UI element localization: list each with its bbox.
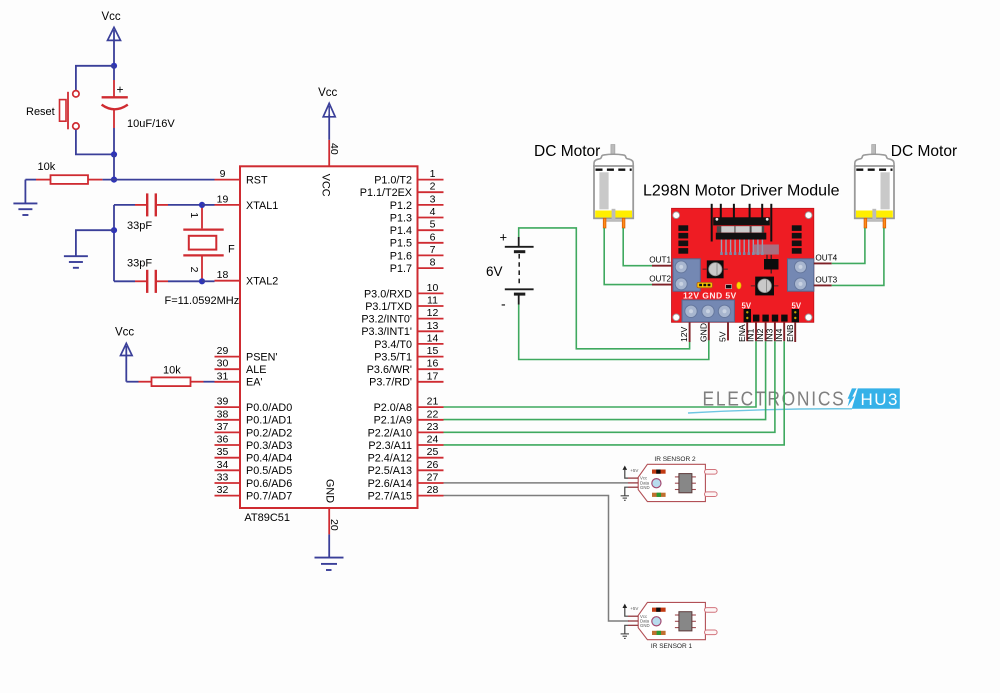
svg-text:PSEN': PSEN': [246, 352, 277, 364]
module U2 L298N board: [672, 208, 814, 322]
svg-text:P0.5/AD5: P0.5/AD5: [246, 465, 292, 477]
svg-text:2: 2: [430, 181, 436, 193]
svg-text:OUT1: OUT1: [649, 256, 671, 265]
svg-text:12V GND 5V: 12V GND 5V: [683, 291, 737, 301]
svg-text:29: 29: [217, 345, 229, 357]
U1 pin 19 XTAL1: [215, 193, 279, 211]
U1 pin 26 P2.5/A13: [368, 459, 444, 477]
svg-text:32: 32: [217, 484, 229, 496]
module pin stub IN1: [746, 322, 756, 342]
svg-text:XTAL1: XTAL1: [246, 200, 278, 212]
svg-text:25: 25: [427, 446, 439, 458]
svg-text:P2.5/A13: P2.5/A13: [368, 465, 412, 477]
svg-text:1: 1: [188, 212, 200, 218]
svg-text:P1.7: P1.7: [390, 263, 412, 275]
svg-text:P3.5/T1: P3.5/T1: [374, 352, 412, 364]
svg-text:34: 34: [217, 459, 229, 471]
wire XTAL1 to pin 19: [202, 204, 215, 206]
svg-text:P0.0/AD0: P0.0/AD0: [246, 402, 292, 414]
svg-text:IN1: IN1: [746, 328, 756, 342]
wire IN3 to pin 23: [444, 341, 775, 432]
U1 pin 1 P1.0/T2: [374, 168, 443, 186]
U1 pin 6 P1.5: [390, 231, 444, 249]
U1 pin 3 P1.2: [390, 193, 444, 211]
svg-text:F: F: [228, 244, 235, 256]
svg-text:RST: RST: [246, 175, 268, 187]
module 5V jumper ENA: [742, 301, 752, 322]
svg-text:10: 10: [427, 282, 439, 294]
module mounting holes: [673, 212, 812, 321]
module pin stub IN2: [755, 322, 765, 342]
wire OUT1 to motor M1 right terminal: [623, 228, 652, 266]
svg-text:21: 21: [427, 396, 439, 408]
svg-text:5V: 5V: [792, 301, 802, 310]
IR sensor 1 module: [621, 602, 718, 650]
U1 pin 2 P1.1/T2EX: [360, 181, 444, 199]
module capacitor big C-B: [751, 277, 779, 296]
svg-text:P2.2/A10: P2.2/A10: [368, 427, 412, 439]
module yellow LED: [737, 282, 741, 289]
U1 pin 35 P0.4/AD4: [215, 446, 293, 464]
svg-text:10k: 10k: [163, 364, 181, 376]
svg-text:38: 38: [217, 408, 229, 420]
push-button switch Reset: [26, 91, 79, 130]
wire OUT4 to motor M2 left terminal: [832, 228, 865, 263]
svg-text:Vcc: Vcc: [318, 87, 337, 99]
svg-text:7: 7: [430, 244, 436, 256]
module left screw terminal OUT1/OUT2: [673, 259, 700, 291]
svg-text:12: 12: [427, 307, 439, 319]
U1 pin 23 P2.2/A10: [368, 421, 444, 439]
svg-text:IR SENSOR 1: IR SENSOR 1: [651, 643, 693, 650]
U1 pin 18 XTAL2: [215, 269, 279, 287]
svg-text:P2.3/A11: P2.3/A11: [368, 440, 412, 452]
svg-text:-: -: [501, 296, 506, 312]
U1 pin 34 P0.5/AD5: [215, 459, 293, 477]
wire node A to switch top: [76, 66, 114, 91]
module pin OUT1: [649, 256, 671, 266]
crystal F: [183, 205, 235, 281]
svg-text:P0.4/AD4: P0.4/AD4: [246, 453, 292, 465]
module pin OUT3: [814, 275, 838, 285]
U1 pin 16 P3.6/WR': [367, 358, 444, 376]
svg-text:40: 40: [328, 143, 340, 155]
IR sensor 2 module: [621, 456, 718, 502]
svg-text:P2.1/A9: P2.1/A9: [374, 415, 412, 427]
svg-text:15: 15: [427, 345, 439, 357]
svg-text:35: 35: [217, 446, 229, 458]
svg-text:IN4: IN4: [774, 328, 784, 342]
resistor R1 10k: [25, 161, 102, 184]
U1 pin 40 VCC with Vcc arrow: [318, 87, 340, 166]
U1 pin 33 P0.6/AD6: [215, 472, 293, 490]
U1 pin 38 P0.1/AD1: [215, 408, 293, 426]
svg-text:GND: GND: [698, 323, 708, 342]
svg-text:P2.0/A8: P2.0/A8: [374, 402, 412, 414]
svg-text:12V: 12V: [679, 326, 689, 342]
power Vcc symbol top-left: [102, 11, 121, 66]
ground G1: [13, 180, 37, 215]
U1 pin 7 P1.6: [390, 244, 444, 262]
module left resistor pads: [678, 225, 688, 253]
svg-text:36: 36: [217, 434, 229, 446]
svg-text:P1.1/T2EX: P1.1/T2EX: [360, 187, 412, 199]
module bottom screw terminal 12V/GND/5V: [682, 300, 734, 322]
U1 pin 29 PSEN': [215, 345, 278, 363]
node F2 (XTAL2): [199, 278, 205, 284]
U1 pin 27 P2.6/A14: [368, 472, 444, 490]
svg-text:DC Motor: DC Motor: [534, 143, 600, 160]
U1 pin 5 P1.4: [390, 219, 444, 237]
U1 pin 39 P0.0/AD0: [215, 396, 293, 414]
module pin stub ENA: [737, 322, 747, 342]
wire caps left rail: [113, 205, 115, 281]
wire switch bottom to node B: [76, 130, 114, 155]
svg-text:P2.4/A12: P2.4/A12: [368, 453, 412, 465]
node A (Vcc to switch/cap): [111, 63, 117, 69]
svg-text:11: 11: [427, 295, 438, 307]
module small smd: [726, 285, 732, 289]
svg-text:P3.2/INT0': P3.2/INT0': [361, 314, 412, 326]
svg-text:16: 16: [427, 358, 439, 370]
U1 pin 24 P2.3/A11: [368, 434, 443, 452]
svg-text:10uF/16V: 10uF/16V: [127, 118, 175, 130]
module pin stub IN3: [765, 322, 775, 342]
svg-text:Vcc: Vcc: [102, 11, 121, 23]
watermark ELECTRONICS HUB logo: [688, 388, 900, 413]
svg-text:+: +: [117, 83, 124, 97]
svg-text:DC Motor: DC Motor: [891, 143, 957, 160]
wire node B down to RST net: [113, 154, 115, 179]
svg-text:37: 37: [217, 421, 229, 433]
svg-text:6: 6: [430, 231, 436, 243]
svg-text:P1.3: P1.3: [390, 212, 412, 224]
svg-text:P3.4/T0: P3.4/T0: [374, 339, 412, 351]
svg-text:Vcc: Vcc: [115, 327, 134, 339]
U1 pin 20 GND with ground: [315, 508, 344, 570]
op-amp U1 AT89C51 microcontroller body: [240, 166, 418, 508]
svg-text:GND: GND: [324, 479, 336, 503]
U1 pin 13 P3.3/INT1': [361, 320, 443, 338]
svg-text:+: +: [500, 230, 508, 245]
power Vcc symbol (EA pull-up): [115, 327, 134, 382]
module pin OUT4: [814, 253, 838, 263]
svg-text:P1.2: P1.2: [390, 200, 412, 212]
svg-text:5V: 5V: [742, 301, 752, 310]
motor M2 DC Motor (right): [855, 145, 894, 229]
svg-text:1: 1: [430, 168, 436, 180]
svg-text:P3.3/INT1': P3.3/INT1': [361, 326, 412, 338]
capacitor C2 33pF: [114, 193, 202, 232]
svg-text:3: 3: [430, 193, 436, 205]
svg-text:+5V: +5V: [630, 606, 638, 611]
svg-text:23: 23: [427, 421, 439, 433]
svg-text:F=11.0592MHz: F=11.0592MHz: [165, 295, 240, 307]
svg-text:P1.4: P1.4: [390, 225, 412, 237]
module IC pins row: [720, 240, 779, 256]
svg-text:Reset: Reset: [26, 106, 55, 118]
U1 pin 37 P0.2/AD2: [215, 421, 293, 439]
svg-text:HU3: HU3: [861, 390, 900, 409]
svg-text:GND: GND: [640, 623, 650, 628]
U1 pin 21 P2.0/A8: [374, 396, 444, 414]
svg-text:OUT2: OUT2: [649, 275, 671, 284]
U1 pin 9 RST: [215, 168, 268, 186]
svg-text:24: 24: [427, 434, 439, 446]
module yellow jumper block: [697, 282, 712, 287]
module heatsink body: [713, 217, 770, 239]
U1 pin 22 P2.1/A9: [374, 408, 444, 426]
svg-text:20: 20: [328, 519, 340, 531]
U1 pin 25 P2.4/A12: [368, 446, 444, 464]
svg-text:31: 31: [217, 370, 229, 382]
svg-text:18: 18: [217, 269, 229, 281]
U1 pin 4 P1.3: [390, 206, 444, 224]
U1 pin 8 P1.7: [390, 257, 444, 275]
node E (XTAL1): [199, 202, 205, 208]
svg-text:9: 9: [220, 168, 226, 180]
wire pin 27 to IR sensor 2 data: [444, 482, 629, 484]
svg-text:17: 17: [427, 370, 439, 382]
svg-text:AT89C51: AT89C51: [244, 512, 290, 524]
svg-text:VCC: VCC: [320, 174, 332, 197]
wire OUT3 to motor M2 right terminal: [832, 228, 884, 285]
svg-text:19: 19: [217, 193, 229, 205]
U1 pin 15 P3.5/T1: [374, 345, 443, 363]
ground G2: [64, 256, 88, 268]
svg-text:ENB: ENB: [785, 324, 795, 342]
svg-text:2: 2: [188, 267, 200, 273]
module capacitor big C-A: [703, 260, 728, 278]
svg-text:33pF: 33pF: [127, 220, 152, 232]
node C on RST net: [111, 177, 117, 183]
battery BT1 6V: [486, 230, 534, 312]
resistor R2 10k: [126, 364, 214, 386]
module regulator IC: [764, 255, 779, 274]
wire IN2 to pin 22: [444, 341, 766, 419]
module 5V jumper ENB: [792, 301, 802, 322]
svg-text:22: 22: [427, 408, 439, 420]
svg-text:6V: 6V: [486, 264, 503, 279]
svg-text:P3.7/RD': P3.7/RD': [369, 377, 412, 389]
U1 pin 30 ALE: [215, 358, 267, 376]
svg-text:30: 30: [217, 358, 229, 370]
wire IN1 to pin 21: [444, 341, 757, 407]
wire IN4 to pin 24: [444, 341, 785, 445]
U1 pin 36 P0.3/AD3: [215, 434, 293, 452]
svg-text:P3.6/WR': P3.6/WR': [367, 364, 412, 376]
wire XTAL2 to pin 18: [202, 280, 215, 282]
svg-text:28: 28: [427, 484, 439, 496]
svg-text:13: 13: [427, 320, 439, 332]
svg-text:P1.5: P1.5: [390, 238, 412, 250]
wire node D to ground G2: [76, 230, 114, 256]
module heatsink leads: [712, 204, 772, 242]
svg-text:P0.6/AD6: P0.6/AD6: [246, 478, 292, 490]
svg-text:26: 26: [427, 459, 439, 471]
svg-text:XTAL2: XTAL2: [246, 276, 278, 288]
svg-text:+5V: +5V: [630, 468, 638, 473]
svg-text:P0.2/AD2: P0.2/AD2: [246, 427, 292, 439]
svg-text:P2.7/A15: P2.7/A15: [368, 491, 412, 503]
svg-text:L298N Motor Driver Module: L298N Motor Driver Module: [643, 183, 840, 200]
svg-text:8: 8: [430, 257, 436, 269]
svg-text:P2.6/A14: P2.6/A14: [368, 478, 412, 490]
svg-text:P0.7/AD7: P0.7/AD7: [246, 491, 292, 503]
svg-text:P0.1/AD1: P0.1/AD1: [246, 415, 292, 427]
svg-text:5: 5: [430, 219, 436, 231]
svg-text:EA': EA': [246, 377, 262, 389]
svg-text:39: 39: [217, 396, 229, 408]
module pin stub 5V: [718, 322, 728, 342]
motor M1 DC Motor (left): [594, 145, 633, 229]
capacitor C3 33pF: [114, 258, 202, 293]
module pin stub GND: [698, 322, 708, 342]
svg-text:10k: 10k: [38, 161, 56, 173]
module right screw terminal OUT3/OUT4: [788, 259, 814, 291]
svg-text:P3.0/RXD: P3.0/RXD: [364, 288, 412, 300]
svg-text:GND: GND: [640, 485, 650, 490]
svg-text:P3.1/TXD: P3.1/TXD: [365, 301, 412, 313]
svg-text:14: 14: [427, 332, 439, 344]
svg-text:4: 4: [430, 206, 436, 218]
U1 pin 14 P3.4/T0: [374, 332, 443, 350]
wire OUT2 to motor M1 left terminal: [604, 228, 652, 285]
module right resistor pads: [792, 225, 802, 253]
capacitor C1 10uF/16V polarized: [102, 66, 176, 155]
module IN1-IN4 header pins: [753, 315, 788, 322]
svg-text:P1.6: P1.6: [390, 250, 412, 262]
U1 pin 31 EA': [215, 370, 263, 388]
module pin OUT2: [649, 275, 671, 285]
node B (cap bottom): [111, 151, 117, 157]
svg-text:5V: 5V: [718, 331, 728, 342]
svg-text:27: 27: [427, 472, 439, 484]
U1 pin 32 P0.7/AD7: [215, 484, 293, 502]
U1 pin 28 P2.7/A15: [368, 484, 444, 502]
node D (caps rail tap): [111, 227, 117, 233]
wire battery- to module GND: [519, 305, 709, 360]
module pin stub 12V: [679, 322, 689, 342]
svg-text:P0.3/AD3: P0.3/AD3: [246, 440, 292, 452]
U1 pin 11 P3.1/TXD: [365, 295, 443, 313]
U1 pin 12 P3.2/INT0': [361, 307, 443, 325]
svg-text:ALE: ALE: [246, 364, 266, 376]
wire battery+ to module 12V: [519, 228, 690, 349]
wire pin 28 to IR sensor 1 data: [444, 496, 629, 622]
svg-text:OUT3: OUT3: [815, 275, 837, 284]
module pin stub IN4: [774, 322, 784, 342]
U1 pin 10 P3.0/RXD: [364, 282, 444, 300]
svg-text:IR SENSOR 2: IR SENSOR 2: [654, 456, 696, 463]
svg-text:33: 33: [217, 472, 229, 484]
svg-text:P1.0/T2: P1.0/T2: [374, 175, 412, 187]
module pin stub ENB: [785, 322, 795, 342]
U1 pin 17 P3.7/RD': [369, 370, 443, 388]
wire RST net to pin 9: [102, 179, 214, 181]
svg-text:OUT4: OUT4: [815, 253, 837, 262]
svg-text:33pF: 33pF: [127, 258, 152, 270]
